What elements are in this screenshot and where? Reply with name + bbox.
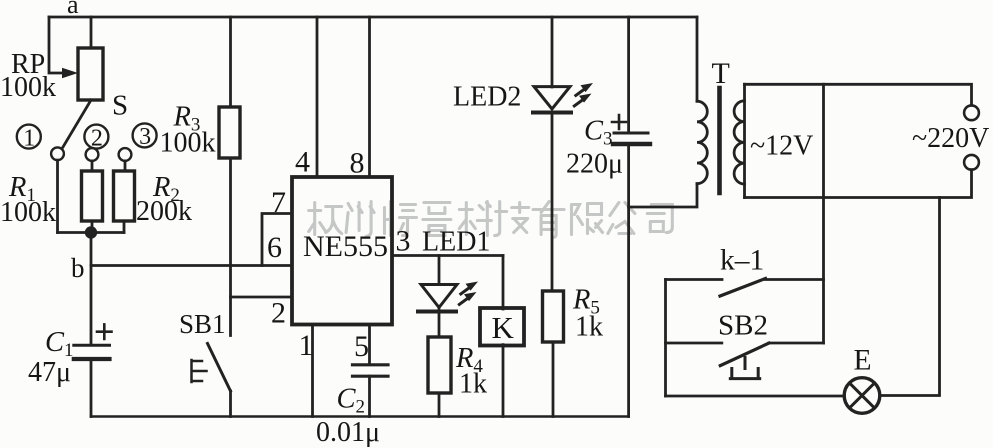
pushbutton SB1 actuator (192, 360, 207, 382)
svg-text:200k: 200k (136, 196, 192, 227)
svg-text:47μ: 47μ (28, 357, 71, 388)
wire bus to lamp (666, 395, 845, 398)
relay contact k-1 (666, 278, 723, 281)
wire C1 to ground rail (90, 359, 93, 417)
junction dot (85, 226, 97, 238)
wire top rail a (49, 16, 697, 19)
svg-text:3: 3 (396, 225, 411, 258)
wire R2 bottom (123, 221, 126, 233)
svg-text:S: S (112, 90, 128, 122)
svg-text:1: 1 (23, 125, 35, 151)
capacitor C2 (353, 363, 389, 366)
svg-text:6: 6 (267, 231, 282, 264)
svg-text:LED2: LED2 (453, 82, 521, 113)
svg-text:1k: 1k (575, 312, 603, 343)
pushbutton SB2 (666, 342, 722, 345)
lamp E (844, 378, 880, 414)
resistor R4 (428, 337, 451, 393)
transformer secondary winding (743, 84, 746, 197)
wire lamp to mains (880, 198, 940, 396)
wire rail to R3 (229, 17, 232, 107)
terminal upper (964, 105, 979, 120)
svg-text:100k: 100k (0, 72, 56, 103)
svg-text:a: a (67, 0, 79, 19)
LED1 light arrows (457, 282, 478, 307)
resistor R1 (82, 171, 103, 221)
wire rail to RP (90, 17, 93, 48)
pushbutton SB1 blade (208, 344, 231, 392)
wire pin 1 to ground rail (311, 325, 314, 417)
svg-text:2: 2 (91, 125, 103, 151)
wire pin 2 to SB1 (231, 296, 293, 299)
wire junction down to node b and C1 (90, 233, 93, 346)
svg-text:k–1: k–1 (720, 245, 764, 277)
timer IC NE555 body (292, 177, 392, 325)
wire R5 to ground rail (552, 342, 555, 417)
switch S contact 3 (119, 148, 132, 161)
switch S wiper arm (63, 100, 91, 147)
wire pin 7 connector (262, 214, 292, 266)
svg-text:K: K (492, 310, 515, 345)
LED LED2 (534, 87, 570, 109)
capacitor C3 (614, 132, 648, 135)
svg-text:E: E (854, 345, 872, 377)
LED2 light arrows (572, 83, 593, 108)
wire left drop to RP wiper (49, 17, 63, 73)
capacitor C1 (74, 344, 110, 347)
svg-text:1: 1 (299, 329, 314, 362)
wire node b to pin 6 (91, 264, 292, 267)
wire pin3 stub down to relay K (502, 256, 505, 310)
transformer primary winding (696, 17, 699, 101)
svg-text:2: 2 (271, 297, 286, 330)
switch S contact 2 (86, 148, 99, 161)
svg-text:C1: C1 (45, 327, 74, 361)
svg-text:7: 7 (271, 186, 286, 219)
LED LED1 (421, 285, 457, 308)
wire C3 down to ground rail (627, 144, 630, 417)
resistor R5 (543, 291, 564, 342)
position marker 2 (84, 125, 108, 149)
wire K to ground rail (502, 345, 505, 417)
svg-text:0.01μ: 0.01μ (316, 417, 380, 448)
pushbutton SB2 actuator (730, 358, 759, 379)
svg-text:C2: C2 (337, 384, 366, 418)
svg-text:SB1: SB1 (179, 309, 226, 339)
svg-text:SB2: SB2 (718, 310, 768, 342)
wire pin3 to LED1 (438, 256, 441, 285)
wire pin 8 to rail (368, 17, 371, 177)
relay coil K (480, 308, 524, 346)
svg-text:5: 5 (354, 330, 369, 363)
wire contact1 down (56, 160, 59, 232)
wire LED2 to R5 (551, 113, 554, 292)
svg-text:C3: C3 (584, 116, 613, 150)
svg-text:4: 4 (295, 146, 310, 179)
capacitor C3 plus sign (612, 115, 626, 129)
svg-text:100k: 100k (0, 197, 56, 228)
wire C2 to ground rail (368, 376, 371, 416)
wire bottom connector of switch bank (58, 231, 125, 234)
wire pin 5 to C2 (368, 325, 371, 365)
wire pin 3 stub (392, 254, 503, 257)
wire rail to C3 (627, 17, 630, 133)
wire R1 bottom (91, 221, 94, 233)
svg-text:b: b (71, 253, 85, 283)
svg-text:T: T (712, 57, 730, 90)
wire R3 to node b wire (229, 158, 232, 336)
capacitor C1 plus sign (97, 324, 112, 339)
svg-text:8: 8 (350, 147, 365, 180)
svg-text:3: 3 (139, 124, 151, 150)
svg-text:~12V: ~12V (750, 131, 813, 162)
wire SB1 to ground rail (229, 391, 232, 417)
wire left bus of contacts (664, 280, 667, 397)
svg-text:100k: 100k (160, 128, 216, 159)
watermark (309, 202, 673, 238)
wire 12V loop vertical (822, 84, 825, 343)
resistor R3 (219, 107, 240, 158)
svg-text:220μ: 220μ (566, 149, 623, 180)
position marker 3 (133, 123, 157, 147)
wire ground bottom rail (91, 415, 629, 418)
wire contact2 to R1 (91, 161, 94, 171)
position marker 1 (17, 125, 41, 149)
svg-text:~220V: ~220V (912, 123, 989, 154)
transformer core (717, 88, 722, 193)
potentiometer RP wiper arrow (62, 68, 78, 79)
wire contact3 to R2 (124, 161, 127, 171)
wire pin 4 to rail (316, 17, 319, 177)
svg-text:1k: 1k (459, 369, 487, 400)
wire R4 to ground rail (438, 393, 441, 417)
wire rail to LED2 (551, 17, 554, 87)
wire secondary bottom to terminals (745, 170, 972, 198)
wire secondary top to terminals (745, 84, 972, 105)
svg-text:NE555: NE555 (303, 230, 388, 263)
potentiometer RP body (78, 48, 103, 100)
svg-text:LED1: LED1 (422, 227, 490, 258)
switch S contact 1 (51, 147, 64, 160)
terminal lower (964, 155, 979, 170)
resistor R2 (114, 171, 135, 221)
